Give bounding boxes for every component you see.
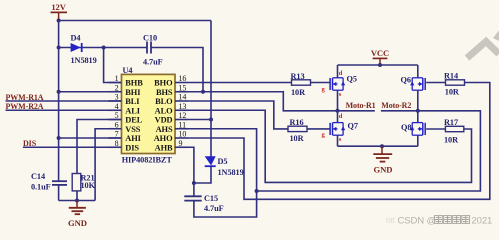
svg-text:D5: D5	[218, 157, 228, 166]
svg-text:Moto-R2: Moto-R2	[381, 101, 411, 110]
wire R14 to Q6 gate	[426, 82, 446, 84]
capacitor C10	[147, 42, 151, 54]
svg-text:U4: U4	[123, 66, 133, 75]
wire Q8 source	[417, 135, 419, 146]
svg-text:CSDN @: CSDN @	[398, 216, 437, 227]
pin 9 stub	[175, 146, 188, 148]
svg-text:ALO: ALO	[155, 106, 173, 115]
wire Q5 source to Moto-R1	[337, 90, 339, 111]
wire Moto-R2 stub	[381, 110, 418, 112]
svg-text:12: 12	[179, 111, 187, 120]
pin 15 stub	[175, 91, 188, 93]
pin 16 stub	[175, 82, 188, 84]
capacitor C15	[184, 196, 201, 200]
svg-text:BLO: BLO	[155, 97, 173, 106]
pin 4 stub	[109, 109, 122, 111]
svg-text:10R: 10R	[291, 88, 306, 97]
wire VDD vertical (top right drop to D5)	[210, 21, 212, 157]
svg-text:VDD: VDD	[155, 116, 173, 125]
wire D4 node to pin 1 BHB	[104, 48, 122, 83]
wire AHB node to C15	[193, 183, 195, 196]
wire AHS pin11 run	[188, 111, 480, 191]
svg-text:14: 14	[179, 93, 187, 102]
wire AHO pin10 run to R14	[188, 83, 490, 200]
decorative watermark diagonal	[467, 42, 499, 59]
junction Moto-R2 node	[416, 109, 420, 113]
transistor Q5	[330, 78, 345, 90]
wire R13 to Q5 gate	[311, 82, 331, 84]
svg-text:13: 13	[179, 102, 187, 111]
svg-text:3: 3	[115, 93, 119, 102]
resistor R17	[445, 126, 463, 131]
resistor R13	[292, 80, 311, 85]
resistor R14	[446, 80, 465, 85]
svg-text:DIS: DIS	[125, 143, 139, 152]
svg-text:htt: htt	[386, 216, 395, 225]
svg-text:Moto-R1: Moto-R1	[346, 101, 376, 110]
pin 10 stub	[175, 137, 188, 139]
junction BHI tap	[57, 90, 61, 94]
junction AHI tap	[57, 136, 61, 140]
pin 1 stub	[109, 82, 122, 84]
wire D5 cathode to AHB node	[194, 166, 211, 183]
svg-text:AHB: AHB	[155, 143, 173, 152]
svg-text:7: 7	[115, 130, 119, 139]
power port VCC	[371, 48, 389, 65]
svg-text:1: 1	[115, 74, 119, 83]
svg-text:R17: R17	[444, 118, 458, 127]
wire Q6 source to Moto-R2	[417, 90, 419, 111]
svg-text:1N5819: 1N5819	[218, 168, 244, 177]
svg-text:9: 9	[179, 139, 183, 148]
svg-text:Q5: Q5	[347, 75, 357, 84]
transistor Q8	[410, 123, 425, 136]
pin 2 stub	[109, 91, 122, 93]
svg-text:15: 15	[179, 83, 187, 92]
svg-text:Q7: Q7	[348, 122, 358, 131]
svg-text:2021: 2021	[472, 216, 493, 227]
junction VDD	[209, 118, 213, 122]
svg-text:12V: 12V	[51, 2, 66, 12]
resistor R16	[288, 126, 307, 131]
wire 12V left vertical	[58, 21, 60, 182]
op-amp U4 HIP4082IBZT body	[122, 74, 176, 153]
wire BLO pin14 to R16	[188, 101, 288, 129]
svg-text:1N5819: 1N5819	[71, 56, 97, 65]
svg-text:8: 8	[115, 139, 119, 148]
wire C14 bottom	[58, 185, 60, 201]
wire AHI pin 7 tap	[59, 137, 122, 139]
capacitor C14	[52, 181, 67, 185]
svg-text:BHB: BHB	[125, 79, 143, 88]
svg-text:R13: R13	[291, 72, 305, 81]
svg-text:Q8: Q8	[401, 123, 411, 132]
ground symbol bridge	[373, 146, 392, 161]
svg-text:GND: GND	[68, 218, 87, 228]
svg-text:6: 6	[115, 120, 119, 129]
wire left ground rail	[59, 200, 96, 202]
wire Q8 drain	[417, 111, 419, 123]
wire VCC rail	[338, 64, 418, 66]
wire bridge ground rail	[338, 145, 418, 147]
svg-text:10K: 10K	[81, 181, 96, 190]
wire DIS to pin 8	[23, 146, 122, 148]
junction AHS/C15 node	[255, 189, 259, 193]
svg-text:AHI: AHI	[125, 134, 141, 143]
wire C10 right to BHS	[151, 48, 203, 92]
junction Moto-R1 node	[336, 109, 340, 113]
junction VCC stem	[378, 63, 382, 67]
svg-text:2: 2	[115, 83, 119, 92]
pin 13 stub	[175, 109, 188, 111]
svg-text:10R: 10R	[445, 88, 460, 97]
svg-text:5: 5	[115, 111, 119, 120]
svg-text:BHO: BHO	[154, 79, 173, 88]
svg-text:4.7uF: 4.7uF	[143, 58, 163, 67]
wire R17 to Q8 gate	[426, 128, 446, 130]
svg-text:11: 11	[179, 120, 187, 129]
svg-text:AHS: AHS	[156, 125, 173, 134]
svg-text:4: 4	[115, 102, 119, 111]
pin 8 stub	[109, 146, 122, 148]
svg-text:C15: C15	[204, 194, 218, 203]
svg-text:10R: 10R	[290, 134, 305, 143]
diode D4	[71, 43, 82, 52]
svg-text:Q6: Q6	[401, 76, 411, 85]
wire D4 anode-cathode row	[59, 47, 104, 49]
svg-text:16: 16	[179, 74, 187, 83]
svg-text:ALI: ALI	[125, 106, 140, 115]
junction C10/BHS	[201, 90, 205, 94]
svg-text:R14: R14	[444, 72, 458, 81]
svg-text:C10: C10	[143, 34, 157, 43]
svg-text:C14: C14	[31, 172, 45, 181]
transistor Q7	[330, 123, 345, 136]
junction left ground	[75, 199, 79, 203]
wire VDD pin12 tap	[188, 119, 211, 121]
svg-text:VSS: VSS	[125, 125, 141, 134]
svg-text:HIP4082IBZT: HIP4082IBZT	[122, 156, 173, 165]
svg-text:d: d	[339, 113, 343, 120]
junction D4 anode	[57, 46, 61, 50]
svg-text:GND: GND	[374, 164, 393, 174]
junction D4 cathode node	[102, 46, 106, 50]
svg-text:BHS: BHS	[156, 88, 173, 97]
wire C10 left	[104, 47, 147, 49]
pin 11 stub	[175, 128, 188, 130]
svg-text:VCC: VCC	[371, 48, 389, 58]
junction 12V stem	[57, 19, 61, 23]
svg-text:BHI: BHI	[125, 88, 140, 97]
junction AHB/D5/C15	[192, 181, 196, 185]
wire BHS pin15 run	[188, 92, 375, 111]
pin 14 stub	[175, 100, 188, 102]
wire Q7 source	[337, 135, 339, 146]
pin 5 stub	[109, 119, 122, 121]
power port 12V	[51, 2, 68, 20]
svg-text:R16: R16	[290, 118, 304, 127]
svg-text:AHO: AHO	[154, 134, 173, 143]
wire Q7 drain	[337, 111, 339, 123]
wire C15 bottom to AHS	[194, 191, 257, 217]
wire DEL pin 5 to R21	[77, 120, 122, 174]
diode D5	[205, 156, 216, 166]
wire VSS pin 6 to ground rail	[95, 129, 121, 201]
wire BHI pin 2 tap	[59, 91, 122, 93]
svg-text:4.7uF: 4.7uF	[204, 204, 224, 213]
pin 12 stub	[175, 119, 188, 121]
svg-text:BLI: BLI	[125, 97, 139, 106]
pin 3 stub	[109, 100, 122, 102]
wire PWM-R2A to pin 4	[6, 109, 122, 111]
svg-text:DEL: DEL	[125, 116, 142, 125]
pin 6 stub	[109, 128, 122, 130]
transistor Q6	[410, 78, 425, 90]
svg-text:10: 10	[179, 130, 187, 139]
svg-text:D4: D4	[71, 34, 81, 43]
pin 7 stub	[109, 137, 122, 139]
wire R21 bottom	[76, 191, 78, 201]
wire ALO pin13 to R17	[188, 110, 472, 182]
wire BHO pin16 to R13	[188, 82, 292, 84]
wire Q6 drain	[417, 65, 419, 78]
junction bridge ground	[380, 144, 384, 148]
wire R16 to Q7 gate	[307, 128, 330, 130]
wire Q5 drain	[337, 65, 339, 78]
wire 12V top horizontal	[59, 20, 211, 22]
svg-text:0.1uF: 0.1uF	[31, 183, 51, 192]
svg-text:10R: 10R	[444, 136, 459, 145]
wire PWM-R1A to pin 3	[6, 100, 122, 102]
resistor R21	[72, 174, 81, 191]
ground symbol left	[69, 201, 86, 215]
svg-text:d: d	[339, 70, 343, 77]
wire AHB pin9 down	[188, 147, 194, 183]
